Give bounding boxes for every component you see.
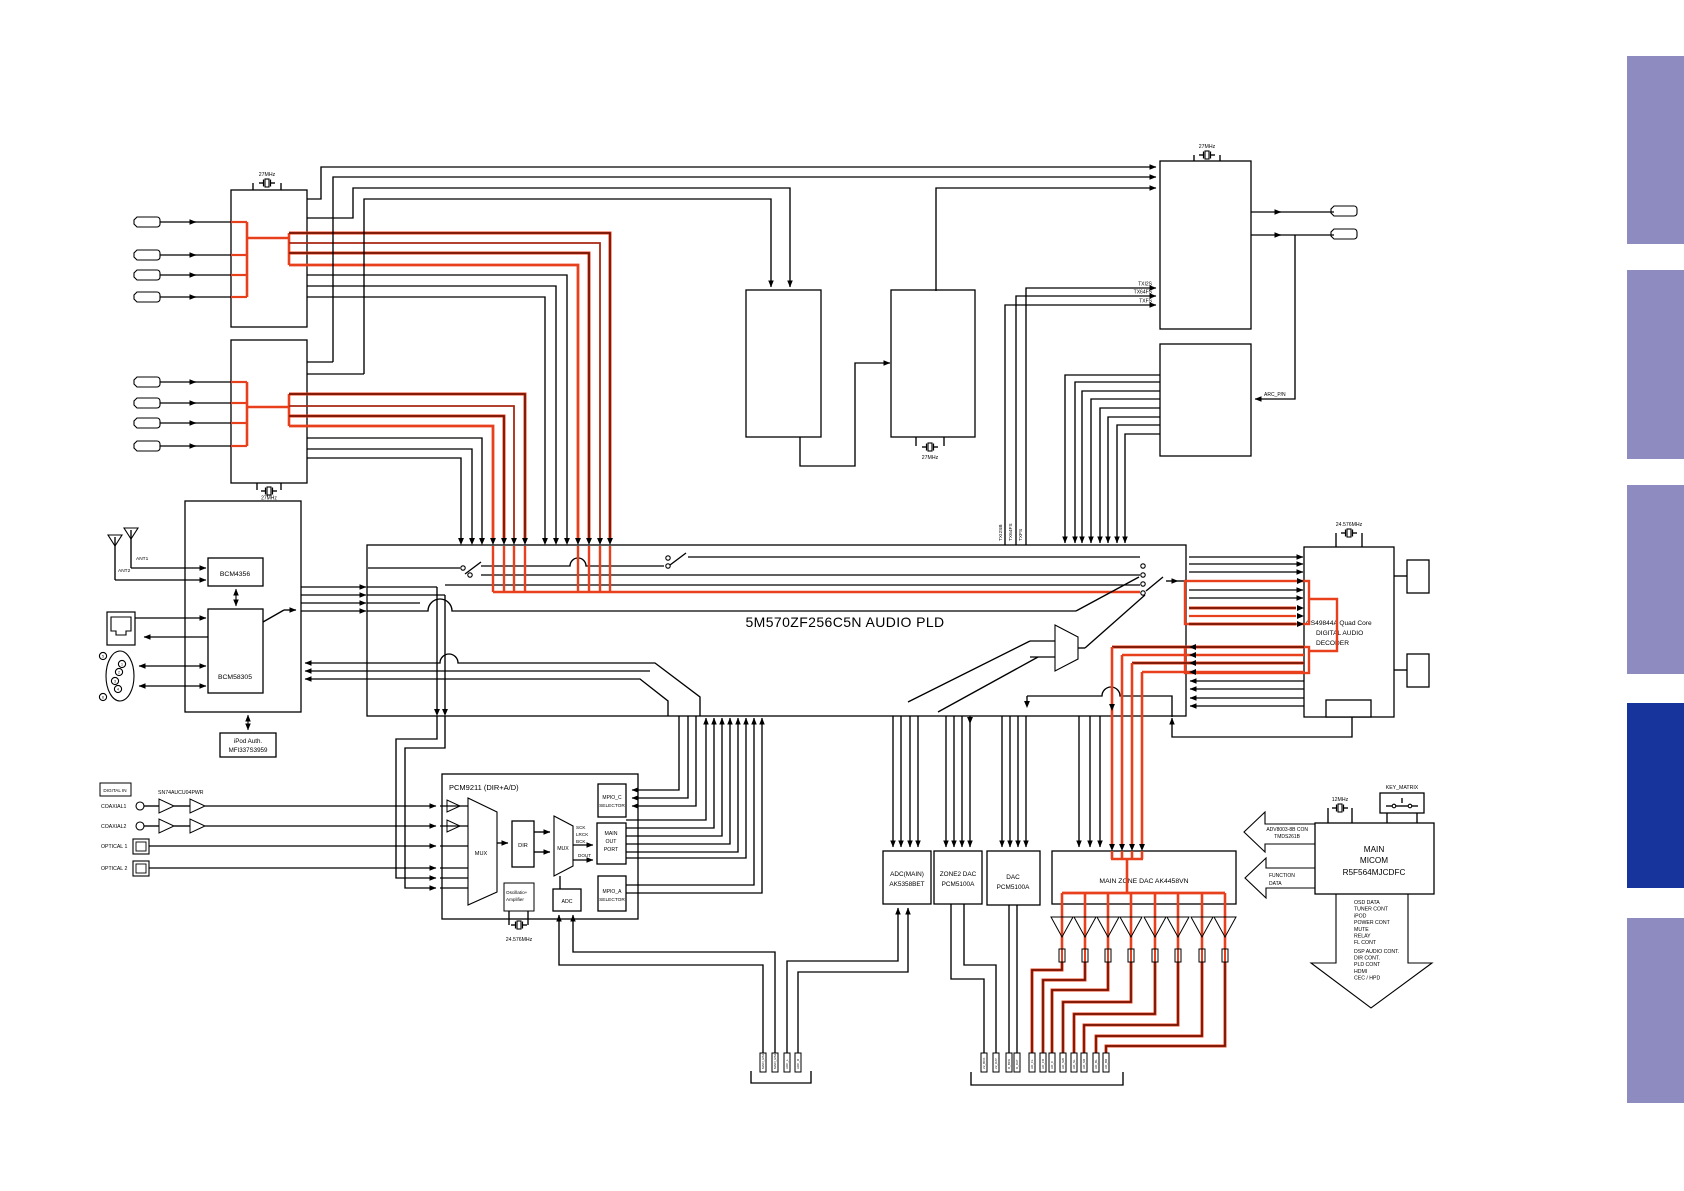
svg-text:DECODER: DECODER	[1316, 640, 1349, 647]
svg-text:DIR CONT.: DIR CONT.	[1354, 956, 1380, 962]
svg-text:ZONE2 DAC: ZONE2 DAC	[940, 871, 977, 878]
svg-text:PLD CONT: PLD CONT	[1354, 962, 1381, 968]
svg-text:CS49844A Quad Core: CS49844A Quad Core	[1306, 620, 1372, 627]
svg-text:4: 4	[117, 688, 119, 692]
svg-text:HDMI: HDMI	[1354, 969, 1367, 975]
svg-text:AO_BR: AO_BR	[1104, 1058, 1108, 1069]
svg-text:DSP AUDIO CONT.: DSP AUDIO CONT.	[1354, 949, 1399, 955]
svg-text:3: 3	[114, 680, 116, 684]
svg-text:TXI2SB: TXI2SB	[998, 524, 1004, 541]
svg-text:ADC_L: ADC_L	[785, 1059, 789, 1069]
svg-text:DOUT: DOUT	[578, 853, 591, 858]
svg-text:BCM58305: BCM58305	[218, 674, 252, 681]
svg-text:TUNER CONT: TUNER CONT	[1354, 907, 1389, 913]
svg-text:BCK: BCK	[576, 839, 586, 844]
svg-text:LRCK: LRCK	[576, 832, 589, 837]
svg-text:MAIN: MAIN	[605, 831, 618, 837]
svg-text:Oscillatio+: Oscillatio+	[506, 890, 528, 895]
svg-text:DIGITAL IN: DIGITAL IN	[103, 788, 126, 793]
svg-text:RELAY: RELAY	[1354, 934, 1371, 940]
svg-text:iPod Auth.: iPod Auth.	[234, 738, 262, 745]
svg-text:SN74AUCU04PWR: SN74AUCU04PWR	[158, 790, 204, 796]
svg-text:PCM5100A: PCM5100A	[942, 881, 975, 888]
svg-text:FL CONT: FL CONT	[1354, 940, 1377, 946]
svg-text:MUX: MUX	[557, 846, 569, 852]
svg-text:CEC / HPD: CEC / HPD	[1354, 975, 1380, 981]
svg-text:OPTICAL 2: OPTICAL 2	[101, 866, 127, 872]
svg-text:OUT: OUT	[606, 839, 618, 845]
svg-text:27MHz: 27MHz	[922, 455, 939, 461]
svg-text:MICOM: MICOM	[1360, 856, 1388, 865]
svg-text:6: 6	[102, 696, 104, 700]
svg-text:MAIN ZONE DAC AK4458VN: MAIN ZONE DAC AK4458VN	[1099, 878, 1188, 885]
svg-text:MUTE: MUTE	[1354, 927, 1369, 933]
svg-text:27MHz: 27MHz	[259, 172, 276, 178]
svg-text:MPIO_A: MPIO_A	[603, 889, 623, 895]
svg-text:DIR: DIR	[518, 843, 528, 849]
svg-text:ARC_P/N: ARC_P/N	[1264, 392, 1286, 398]
svg-text:ADV8003-8B CON: ADV8003-8B CON	[1266, 827, 1308, 833]
svg-text:PCM5100A: PCM5100A	[997, 884, 1030, 891]
svg-text:D_BCK: D_BCK	[1007, 1059, 1011, 1069]
svg-text:TXI2S: TXI2S	[1138, 282, 1153, 288]
svg-text:Amplifier: Amplifier	[506, 897, 524, 902]
svg-text:TMDS261B: TMDS261B	[1274, 834, 1301, 840]
svg-text:SELECTOR: SELECTOR	[599, 897, 625, 903]
svg-text:FUNCTION: FUNCTION	[1269, 873, 1295, 879]
svg-text:OSD DATA: OSD DATA	[1354, 900, 1380, 906]
svg-text:MPIO_C: MPIO_C	[602, 795, 622, 801]
svg-text:OPTICAL 1: OPTICAL 1	[101, 844, 127, 850]
svg-text:AO_SL: AO_SL	[1072, 1059, 1076, 1069]
svg-text:SCK: SCK	[576, 825, 586, 830]
svg-text:COAXIAL1: COAXIAL1	[101, 804, 126, 810]
svg-text:ADC(MAIN): ADC(MAIN)	[890, 871, 924, 878]
svg-text:Z2_BCK: Z2_BCK	[982, 1058, 986, 1069]
svg-text:AO_C: AO_C	[1050, 1060, 1054, 1069]
svg-text:R5F564MJCDFC: R5F564MJCDFC	[1343, 868, 1406, 877]
svg-text:PCM9211 (DIR+A/D): PCM9211 (DIR+A/D)	[449, 783, 519, 792]
svg-text:D_DAT: D_DAT	[1015, 1059, 1019, 1069]
svg-text:AO_FR: AO_FR	[1041, 1058, 1045, 1069]
svg-text:27MHz: 27MHz	[1199, 144, 1216, 150]
svg-text:COAXIAL2: COAXIAL2	[101, 824, 126, 830]
svg-text:AO_SR: AO_SR	[1082, 1058, 1086, 1069]
svg-text:iPOD: iPOD	[1354, 913, 1367, 919]
svg-text:MAIN_I2S2: MAIN_I2S2	[773, 1053, 777, 1069]
svg-text:ADC_R: ADC_R	[796, 1058, 800, 1069]
svg-text:AO_SW: AO_SW	[1061, 1058, 1065, 1069]
svg-text:MAIN_I2S1: MAIN_I2S1	[761, 1053, 765, 1069]
svg-text:ADC: ADC	[562, 899, 573, 905]
svg-text:ANT2: ANT2	[118, 568, 131, 574]
svg-text:TX64FS: TX64FS	[1008, 523, 1014, 541]
svg-text:PORT: PORT	[604, 847, 619, 853]
svg-text:POWER CONT: POWER CONT	[1354, 920, 1391, 926]
svg-text:DIGITAL AUDIO: DIGITAL AUDIO	[1316, 630, 1363, 637]
svg-text:AO_BL: AO_BL	[1094, 1059, 1098, 1069]
svg-text:KEY_MATRIX: KEY_MATRIX	[1386, 785, 1419, 791]
svg-text:12MHz: 12MHz	[1332, 797, 1349, 803]
svg-text:TX64FS: TX64FS	[1134, 290, 1153, 296]
svg-text:TXFS: TXFS	[1139, 299, 1152, 305]
svg-text:MFI337S3959: MFI337S3959	[229, 747, 268, 754]
svg-text:5M570ZF256C5N AUDIO PLD: 5M570ZF256C5N AUDIO PLD	[745, 614, 944, 630]
svg-text:DATA: DATA	[1269, 881, 1282, 887]
svg-text:AO_FL: AO_FL	[1030, 1059, 1034, 1069]
svg-text:TXFS: TXFS	[1018, 529, 1024, 541]
svg-text:2: 2	[118, 671, 120, 675]
svg-text:5: 5	[102, 655, 104, 659]
svg-text:SELECTOR: SELECTOR	[599, 803, 625, 809]
svg-text:MAIN: MAIN	[1364, 845, 1385, 854]
svg-text:MUX: MUX	[475, 851, 488, 857]
svg-text:Z2_DAT: Z2_DAT	[994, 1058, 998, 1069]
svg-text:DAC: DAC	[1006, 874, 1020, 881]
svg-text:24.576MHz: 24.576MHz	[506, 937, 533, 943]
svg-text:1: 1	[121, 663, 123, 667]
svg-text:ANT1: ANT1	[136, 556, 149, 562]
svg-text:AK5358BET: AK5358BET	[889, 881, 924, 888]
svg-text:24.576MHz: 24.576MHz	[1336, 522, 1363, 528]
svg-text:BCM4356: BCM4356	[220, 571, 250, 578]
